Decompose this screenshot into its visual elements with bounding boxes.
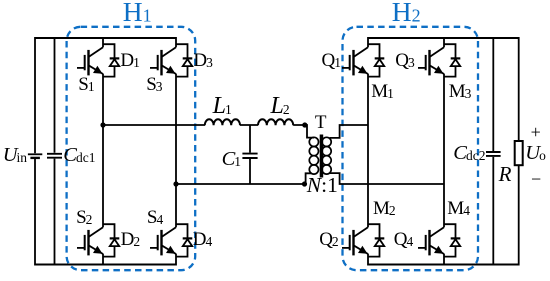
transistor S3 [150,47,176,75]
diode D1 [103,44,119,76]
wire: H1 bottom rail [35,264,176,266]
wire: capacitor C1 branch top [249,125,251,153]
wire: input source branch vertical [34,37,36,266]
label Uo [525,143,546,164]
label L1 [213,94,232,118]
transformer T secondary winding [322,137,331,174]
diode D2 [103,224,119,256]
resistor R box [515,141,523,165]
wire: L2 to transformer primary top [293,125,314,138]
label Cdc2 [453,143,485,164]
label S3 [146,75,162,94]
label D2 [121,230,140,249]
wire: leg Q1/Q2 vertical (x=368) [367,37,369,266]
label D1 [120,51,139,70]
transistor S1 [77,47,103,75]
node: transformer primary top polarity dot [302,122,307,127]
node B: S3/S4 midpoint junction dot [173,181,178,186]
label Q1 [322,51,341,70]
diode M1 [368,44,384,76]
transformer T primary winding [309,137,318,174]
H1 bridge dashed boundary box [67,27,196,270]
capacitor C1 plates [242,154,257,158]
diode M3 [444,44,460,76]
label M4 [447,199,470,218]
node A: S1/S2 midpoint junction dot [100,122,105,127]
label H1 [123,0,152,25]
wire: H2 top rail [368,37,519,39]
battery source Uin: long plate [28,153,42,155]
wire: secondary bottom lead to Q3/Q4 midpoint [330,173,444,184]
H2 bridge dashed boundary box [343,27,479,270]
wire: leg S3/S4 vertical (x=176) [175,37,177,266]
diode M4 [444,224,460,256]
label D3 [193,51,212,70]
diode D3 [176,44,192,76]
label L2 [271,94,290,118]
label Q4 [394,230,413,249]
label M1 [371,82,394,101]
label D4 [193,230,212,249]
diode M2 [368,224,384,256]
wire: L1 to L2 [240,124,258,126]
wire: secondary top lead to Q1/Q2 midpoint [330,125,368,138]
transistor Q4 [418,227,444,255]
wire: leg Q3/Q4 vertical (x=444) [443,37,445,266]
wire: H1 top rail [35,37,176,39]
transistor Q2 [342,227,368,255]
wire: H2 bottom rail [368,264,519,266]
label M3 [449,82,472,101]
label R [499,164,512,185]
label S1 [78,75,94,94]
label M2 [373,199,396,218]
label Cdc1 [63,145,95,166]
transistor S4 [150,227,176,255]
wire: bottom return to transformer primary [176,173,311,184]
wire: load branch vertical top [518,37,520,141]
wire: load branch vertical bottom [518,165,520,265]
label Q2 [319,230,338,249]
wire: capacitor C1 branch bottom [249,159,251,184]
transistor Q1 [342,47,368,75]
inductor L1 [205,119,240,125]
label H2 [392,0,421,25]
capacitor Cdc1 plates [47,154,62,158]
transistor S2 [77,227,103,255]
battery source Uin: short plate [30,157,40,159]
label C1 [222,149,241,170]
capacitor Cdc2 plates [486,152,501,156]
node: transformer primary bottom polarity dot [302,181,307,186]
inductor L2 [258,119,293,125]
wire: midpoint to L1 [103,124,205,126]
transformer T core bar [320,135,324,178]
label output plus [531,123,541,141]
transistor Q3 [418,47,444,75]
label Uin [3,145,27,166]
wire: Cdc2 branch vertical [492,38,494,265]
label output minus [531,170,541,188]
label N:1 [307,175,338,197]
label S2 [76,208,92,227]
label S4 [147,208,163,227]
diode D4 [176,224,192,256]
label T [315,113,327,132]
label Q3 [395,51,414,70]
wire: leg S1/S2 vertical (x=103) [102,37,104,266]
wire: Cdc1 branch vertical [54,38,56,265]
